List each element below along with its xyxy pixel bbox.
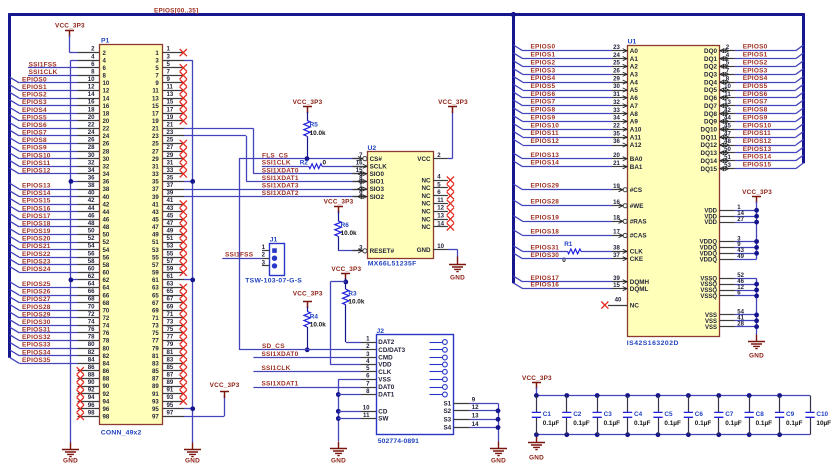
svg-text:DQ15: DQ15 [701, 166, 718, 173]
svg-text:48: 48 [103, 224, 110, 231]
svg-text:22: 22 [613, 123, 620, 130]
connector J1 body [270, 244, 285, 276]
P1 pin 25 [162, 143, 184, 145]
svg-text:A0: A0 [630, 48, 639, 55]
svg-text:65: 65 [152, 292, 159, 299]
capacitor C5 0.1µF [656, 393, 661, 398]
svg-text:C2: C2 [573, 411, 582, 418]
P1 pin 33 [162, 173, 184, 175]
svg-text:2: 2 [91, 46, 95, 53]
svg-text:8: 8 [91, 68, 95, 75]
svg-text:0.1µF: 0.1µF [725, 420, 742, 427]
svg-text:13: 13 [724, 99, 731, 106]
svg-text:22: 22 [103, 126, 110, 133]
wire VCC to J2 VDD pin 4 [330, 281, 346, 283]
svg-text:NC: NC [421, 201, 431, 208]
svg-text:52: 52 [103, 239, 110, 246]
svg-text:EPIOS30: EPIOS30 [22, 319, 51, 326]
P1 pin 50 [78, 234, 100, 236]
J2 VSS/DAT1/CD/SW ground chain [338, 379, 361, 381]
svg-text:EPIOS10: EPIOS10 [743, 122, 772, 129]
net label EPIOS4 + bus entry [10, 108, 19, 114]
svg-text:EPIOS14: EPIOS14 [743, 154, 772, 161]
svg-text:EPIOS11: EPIOS11 [531, 130, 559, 137]
VCC_3P3 at capacitor bank [532, 383, 541, 390]
svg-text:EPIOS8: EPIOS8 [531, 107, 556, 114]
P1 pin 44 [78, 211, 100, 213]
svg-text:BA0: BA0 [630, 156, 643, 163]
svg-text:SD_CS: SD_CS [262, 343, 285, 350]
svg-text:16: 16 [103, 103, 110, 110]
svg-text:1: 1 [155, 50, 159, 57]
J2 pin 3 CMD [361, 357, 376, 359]
svg-text:IS42S163202D: IS42S163202D [627, 340, 679, 347]
net label EPIOS30 + bus entry [10, 320, 19, 326]
U1 pin 47 DQ11 to EPIOS11 [719, 137, 735, 139]
U2 pin 12 NC [433, 211, 448, 213]
J2 pin 10 CD [361, 411, 376, 413]
P1 pin 9 [162, 82, 184, 84]
svg-text:20: 20 [103, 118, 110, 125]
svg-text:47: 47 [152, 224, 159, 231]
svg-text:A4: A4 [630, 79, 639, 86]
svg-text:0.1µF: 0.1µF [634, 420, 651, 427]
svg-text:EPIOS1: EPIOS1 [743, 52, 768, 59]
svg-text:91: 91 [167, 387, 174, 394]
svg-text:49: 49 [167, 228, 174, 235]
svg-text:11: 11 [724, 91, 731, 98]
svg-text:37: 37 [167, 182, 174, 189]
P1 pin 19 [162, 120, 184, 122]
P1 pin 70 [78, 310, 100, 312]
net label EPIOS15 + bus entry [10, 198, 19, 204]
svg-text:DAT2: DAT2 [378, 339, 394, 346]
svg-text:EPIOS23: EPIOS23 [22, 258, 51, 265]
U2 pin 7 CS# [353, 158, 363, 160]
U1 pin 27 VDD [719, 222, 735, 224]
svg-text:A3: A3 [630, 72, 639, 79]
svg-text:13: 13 [167, 91, 174, 98]
GND rail left of P1 (pins 4,36,62) [70, 60, 72, 442]
svg-text:83: 83 [152, 361, 159, 368]
svg-text:VSS: VSS [378, 377, 391, 384]
P1 pin 45 [162, 219, 184, 221]
svg-text:29: 29 [167, 152, 174, 159]
svg-text:EPIOS27: EPIOS27 [22, 296, 51, 303]
net label EPIOS27 + bus entry [10, 297, 19, 303]
svg-text:EPIOS6: EPIOS6 [531, 91, 556, 98]
svg-text:10.0k: 10.0k [310, 130, 326, 137]
svg-text:EPIOS2: EPIOS2 [22, 92, 47, 99]
P1 pin 23 [162, 135, 184, 137]
J2 card-contact switches [430, 342, 443, 344]
svg-text:94: 94 [88, 394, 95, 401]
svg-text:#CAS: #CAS [630, 233, 647, 240]
wire U2 VCC to VCC_3P3 [448, 158, 453, 160]
U1 pin 3 VDDQ [719, 241, 735, 243]
svg-text:EPIOS11: EPIOS11 [743, 130, 771, 137]
svg-text:31: 31 [167, 159, 174, 166]
svg-text:10.0k: 10.0k [310, 322, 326, 329]
P1 pin 10 [78, 82, 100, 84]
ground symbol below P1 left [62, 443, 79, 457]
P1 pin 34 [78, 173, 100, 175]
svg-text:55: 55 [152, 254, 159, 261]
net label EPIOS7 + bus entry [10, 130, 19, 136]
P1 pin 69 [162, 310, 184, 312]
svg-text:EPIOS6: EPIOS6 [743, 91, 768, 98]
capacitor C8 0.1µF [747, 393, 752, 398]
svg-text:42: 42 [103, 201, 110, 208]
U1 pin 45 DQ10 to EPIOS10 [719, 129, 735, 131]
J1 pin 1 square pad [272, 248, 277, 253]
svg-text:SIO0: SIO0 [370, 171, 385, 178]
U1 pin 41 VSS [719, 320, 735, 322]
svg-text:50: 50 [724, 146, 731, 153]
svg-text:EPIOS5: EPIOS5 [743, 83, 768, 90]
P1 pin 20 [78, 120, 100, 122]
svg-text:64: 64 [103, 285, 110, 292]
P1 pin 80 [78, 348, 100, 350]
svg-text:EPIOS7: EPIOS7 [22, 130, 47, 137]
svg-text:FLS_CS: FLS_CS [262, 152, 289, 159]
svg-text:NC: NC [421, 193, 431, 200]
bus left vertical [8, 13, 11, 358]
svg-text:29: 29 [613, 75, 620, 82]
P1 pin 54 [78, 249, 100, 251]
U1 pin 23 A0 from EPIOS0 [612, 50, 627, 52]
VCC_3P3 above R3 [341, 274, 350, 281]
svg-text:4: 4 [437, 174, 441, 181]
svg-text:51: 51 [152, 239, 159, 246]
svg-text:10.0k: 10.0k [348, 299, 364, 306]
svg-text:16: 16 [356, 160, 363, 167]
svg-text:MX66L51235F: MX66L51235F [368, 261, 417, 268]
P1 pin 75 [162, 332, 184, 334]
svg-text:92: 92 [88, 387, 95, 394]
svg-text:17: 17 [167, 106, 174, 113]
svg-text:76: 76 [88, 326, 95, 333]
svg-text:53: 53 [724, 162, 731, 169]
svg-text:DQ4: DQ4 [704, 79, 717, 86]
svg-text:A6: A6 [630, 95, 639, 102]
P1 pin 77 [162, 340, 184, 342]
net label EPIOS11 + bus entry [10, 161, 19, 167]
svg-text:54: 54 [103, 247, 110, 254]
U1 pin 51 DQ14 to EPIOS14 [719, 160, 735, 162]
svg-text:EPIOS11: EPIOS11 [22, 160, 50, 167]
U1 pin 22 A10 from EPIOS10 [612, 129, 627, 131]
svg-text:EPIOS12: EPIOS12 [22, 167, 51, 174]
P1 pin 74 [78, 325, 100, 327]
svg-text:96: 96 [88, 402, 95, 409]
svg-text:9: 9 [472, 397, 476, 404]
svg-text:VCC_3P3: VCC_3P3 [210, 382, 240, 389]
svg-text:25: 25 [167, 137, 174, 144]
P1 pin 56 [78, 257, 100, 259]
svg-text:6: 6 [91, 61, 95, 68]
svg-text:#CS: #CS [630, 187, 642, 194]
svg-text:24: 24 [103, 133, 110, 140]
svg-text:19: 19 [152, 118, 159, 125]
connector J2 body (microSD) [377, 335, 454, 435]
svg-text:R2: R2 [300, 160, 309, 167]
U1 pin 18 #RAS from EPIOS19 [612, 221, 623, 223]
P1 pin 53 [162, 249, 184, 251]
svg-text:EPIOS5: EPIOS5 [531, 83, 556, 90]
J1 pin 2 [262, 258, 270, 260]
resistor R5 10.0k pull-up [303, 107, 312, 114]
svg-text:33: 33 [613, 107, 620, 114]
svg-text:SW: SW [378, 416, 388, 423]
U2 pin 4 NC [433, 180, 448, 182]
svg-text:VCC_3P3: VCC_3P3 [293, 290, 323, 297]
svg-text:GND: GND [417, 247, 431, 254]
P1 pin 52 [78, 242, 100, 244]
svg-text:2: 2 [726, 44, 730, 51]
capacitor C10 10µF [810, 396, 812, 413]
svg-text:86: 86 [103, 368, 110, 375]
svg-text:37: 37 [152, 186, 159, 193]
wire U2 GND pin [448, 249, 458, 251]
svg-text:EPIOS8: EPIOS8 [22, 137, 47, 144]
P1 pin 65 [162, 295, 184, 297]
svg-text:80: 80 [88, 341, 95, 348]
P1 pin 86 [78, 370, 100, 372]
U1 pin 24 A1 from EPIOS1 [612, 58, 627, 60]
P1 pin 36 [78, 181, 100, 183]
U1 pin 32 A7 from EPIOS7 [612, 105, 627, 107]
svg-text:78: 78 [88, 334, 95, 341]
J2 pin 7 DAT0 [361, 387, 376, 389]
U1 pin 31 A6 from EPIOS6 [612, 97, 627, 99]
net label EPIOS8 + bus entry [10, 138, 19, 144]
net label EPIOS31 + bus entry [10, 327, 19, 333]
svg-text:95: 95 [167, 402, 174, 409]
U2 pin 10 GND [433, 249, 448, 251]
svg-text:BA1: BA1 [630, 164, 643, 171]
svg-text:12: 12 [88, 84, 95, 91]
svg-text:79: 79 [152, 345, 159, 352]
svg-text:24: 24 [88, 129, 95, 136]
svg-text:EPIOS29: EPIOS29 [22, 311, 51, 318]
U2 pin 13 NC [433, 219, 448, 221]
svg-text:EPIOS26: EPIOS26 [22, 289, 51, 296]
svg-text:VSS: VSS [705, 325, 717, 331]
ground symbol below capacitor bank [536, 434, 538, 437]
svg-text:0.1µF: 0.1µF [695, 420, 712, 427]
net SD_CS wire [239, 349, 361, 351]
P1 pin 91 [162, 393, 184, 395]
svg-text:EPIOS19: EPIOS19 [22, 228, 51, 235]
U1 pin 9 VDDQ [719, 247, 735, 249]
svg-text:17: 17 [152, 110, 159, 117]
svg-text:30: 30 [103, 156, 110, 163]
svg-text:42: 42 [724, 107, 731, 114]
svg-text:13: 13 [437, 213, 444, 220]
svg-text:EPIOS10: EPIOS10 [531, 122, 560, 129]
U1 pin 43 VDDQ [719, 253, 735, 255]
svg-text:33: 33 [152, 171, 159, 178]
U1 pin 21 BA1 from EPIOS14 [612, 166, 627, 168]
svg-text:94: 94 [103, 398, 110, 405]
svg-text:50: 50 [88, 228, 95, 235]
svg-text:71: 71 [152, 315, 159, 322]
U1 pin 19 #CS from EPIOS29 [612, 189, 623, 191]
P1 pin 72 [78, 317, 100, 319]
svg-text:82: 82 [103, 353, 110, 360]
svg-text:31: 31 [613, 91, 620, 98]
svg-text:61: 61 [167, 273, 174, 280]
svg-text:68: 68 [88, 296, 95, 303]
J2 pin 1 DAT2 [361, 342, 376, 344]
P1 pin 88 [78, 378, 100, 380]
svg-text:DQ3: DQ3 [704, 72, 717, 79]
svg-text:DQ10: DQ10 [701, 127, 718, 134]
svg-text:11: 11 [167, 84, 174, 91]
wire P1 pin 23 to SIO1 net [184, 135, 246, 137]
svg-text:C10: C10 [816, 411, 828, 418]
net label EPIOS26 + bus entry [10, 289, 19, 295]
svg-text:10: 10 [437, 243, 444, 250]
svg-text:36: 36 [103, 179, 110, 186]
svg-text:EPIOS4: EPIOS4 [22, 107, 47, 114]
P1 pin 89 [162, 386, 184, 388]
svg-text:5: 5 [726, 60, 730, 67]
svg-text:35: 35 [152, 179, 159, 186]
svg-text:EPIOS33: EPIOS33 [22, 342, 51, 349]
svg-text:#WE: #WE [630, 203, 644, 210]
svg-text:R4: R4 [310, 313, 319, 320]
svg-text:61: 61 [152, 277, 159, 284]
svg-text:18: 18 [103, 110, 110, 117]
net FLS_CS wire [239, 158, 363, 160]
svg-text:EPIOS16: EPIOS16 [531, 282, 560, 289]
svg-text:VCC_3P3: VCC_3P3 [522, 375, 552, 382]
VCC_3P3 power symbol above U2 [448, 107, 457, 114]
P1 pin 92 [78, 393, 100, 395]
connector P1 body [100, 45, 163, 425]
svg-text:EPIOS28: EPIOS28 [531, 199, 560, 206]
P1 pin 26 [78, 143, 100, 145]
svg-text:67: 67 [167, 296, 174, 303]
svg-text:SSI1XDAT3: SSI1XDAT3 [262, 183, 299, 190]
svg-text:11: 11 [152, 88, 159, 95]
svg-text:36: 36 [613, 138, 620, 145]
svg-text:16: 16 [88, 99, 95, 106]
svg-text:83: 83 [167, 356, 174, 363]
svg-text:EPIOS[00..35]: EPIOS[00..35] [154, 7, 198, 14]
svg-text:26: 26 [103, 141, 110, 148]
U2 pin 1 SIO3 [353, 189, 368, 191]
svg-text:46: 46 [103, 217, 110, 224]
svg-text:VCC_3P3: VCC_3P3 [438, 99, 468, 106]
svg-text:0.1µF: 0.1µF [786, 420, 803, 427]
svg-text:VCC_3P3: VCC_3P3 [742, 189, 772, 196]
svg-text:A2: A2 [630, 64, 639, 71]
wire FLS_CS down to SD_CS row [239, 159, 241, 350]
U1 pin 12 VSSQ [719, 290, 735, 292]
svg-text:34: 34 [103, 171, 110, 178]
svg-text:A12: A12 [630, 142, 642, 149]
svg-text:NC: NC [421, 216, 431, 223]
resistor R3 10.0k pull-up on DAT2 [345, 282, 347, 289]
svg-text:GND: GND [749, 352, 764, 359]
svg-text:EPIOS5: EPIOS5 [22, 114, 47, 121]
net label EPIOS1 + bus entry [10, 85, 19, 91]
svg-text:GND: GND [491, 458, 506, 465]
svg-text:30: 30 [88, 152, 95, 159]
svg-text:26: 26 [88, 137, 95, 144]
J2 shield pin 13 S3 [453, 419, 469, 421]
P1 pin 94 [78, 401, 100, 403]
svg-text:37: 37 [613, 252, 620, 259]
svg-text:58: 58 [88, 258, 95, 265]
bus right vertical [802, 13, 805, 163]
svg-text:81: 81 [152, 353, 159, 360]
net label EPIOS20 + bus entry [10, 236, 19, 242]
svg-text:DQ0: DQ0 [704, 48, 717, 55]
U1 pin 36 A12 from EPIOS12 [612, 145, 627, 147]
svg-text:A9: A9 [630, 119, 639, 126]
P1 pin 17 [162, 113, 184, 115]
net label EPIOS13 + bus entry [10, 183, 19, 189]
svg-text:38: 38 [103, 186, 110, 193]
svg-text:C7: C7 [725, 411, 734, 418]
net SSI1XDAT1 wire to J2 DAT0 [253, 387, 361, 389]
svg-text:C3: C3 [604, 411, 613, 418]
svg-text:70: 70 [103, 307, 110, 314]
net label EPIOS6 + bus entry [10, 123, 19, 129]
P1 pin 31 [162, 166, 184, 168]
svg-text:CS#: CS# [370, 156, 383, 163]
J1 pin 3 [262, 265, 270, 267]
svg-text:DQ1: DQ1 [704, 56, 717, 63]
P1 pin 58 [78, 264, 100, 266]
svg-text:C9: C9 [786, 411, 795, 418]
svg-text:25: 25 [613, 60, 620, 67]
svg-text:39: 39 [152, 194, 159, 201]
P1 pin 55 [162, 257, 184, 259]
svg-text:56: 56 [88, 250, 95, 257]
svg-text:A1: A1 [630, 56, 639, 63]
IC U1 IS42S163202D body [628, 46, 720, 337]
svg-text:74: 74 [103, 323, 110, 330]
svg-text:60: 60 [88, 265, 95, 272]
ground symbol below J2 shield [490, 442, 507, 456]
svg-text:CD/DAT3: CD/DAT3 [378, 347, 405, 354]
P1 pin 5 [162, 67, 184, 69]
P1 pin 47 [162, 226, 184, 228]
svg-text:VCC_3P3: VCC_3P3 [55, 22, 85, 29]
svg-text:43: 43 [167, 205, 174, 212]
U1 pin 40 NC [608, 305, 627, 307]
resistor R6 10.0k on RESET# [334, 207, 343, 214]
svg-text:44: 44 [724, 115, 731, 122]
ground symbol right of U1 [748, 335, 765, 349]
svg-text:97: 97 [167, 409, 174, 416]
svg-text:EPIOS24: EPIOS24 [22, 266, 51, 273]
U1 pin 46 VSSQ [719, 284, 735, 286]
svg-text:GND: GND [63, 458, 78, 465]
P1 pin 95 [162, 408, 184, 410]
svg-text:0.1µF: 0.1µF [604, 420, 621, 427]
P1 pin 14 [78, 98, 100, 100]
svg-text:1: 1 [366, 335, 370, 342]
svg-text:SSI1CLK: SSI1CLK [262, 365, 291, 372]
svg-text:51: 51 [724, 154, 731, 161]
capacitor C9 0.1µF [777, 393, 782, 398]
